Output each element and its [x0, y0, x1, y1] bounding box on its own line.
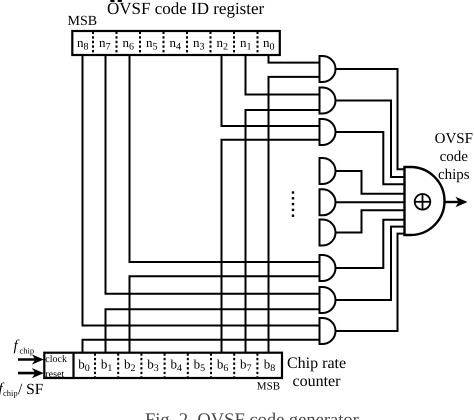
svg-text:n2: n2 — [217, 35, 229, 53]
svg-text:b1: b1 — [101, 357, 113, 375]
wire n6 to U7 input A — [130, 54, 320, 262]
svg-text:n1: n1 — [240, 35, 252, 53]
svg-text:n5: n5 — [146, 35, 158, 53]
svg-text:MSB: MSB — [257, 381, 280, 393]
AND gate U5 (unconnected inputs) — [320, 189, 336, 215]
register cell labels n8..n0 — [77, 35, 275, 53]
wire b1 up to U8 input B — [106, 309, 320, 353]
counter cell divider 7 (dotted) — [233, 353, 235, 377]
register cell divider 5 (dotted) — [186, 32, 188, 55]
wire U8 out — [336, 227, 405, 300]
clock/reset divider — [72, 353, 74, 378]
output wire with arrow — [445, 201, 460, 203]
counter cell divider 2 (dotted) — [117, 353, 119, 377]
svg-text:n7: n7 — [99, 35, 111, 53]
register cell divider 3 (dotted) — [139, 32, 141, 55]
output arrowhead — [456, 197, 468, 207]
svg-text:b5: b5 — [194, 357, 206, 375]
input arrow f_chip (clock) — [18, 358, 36, 361]
svg-text:reset: reset — [45, 369, 64, 380]
wire b6 up to U3 input B — [222, 140, 320, 354]
counter cell divider 6 (dotted) — [210, 353, 212, 377]
counter cell dividers (dotted) — [95, 353, 257, 377]
register cell divider 2 (dotted) — [116, 32, 118, 55]
AND gate U1 — [320, 56, 336, 82]
wire n7 to U8 input A — [106, 54, 320, 294]
wire U6 out — [336, 210, 405, 232]
wires: register outputs down to AND gate inputs — [83, 54, 320, 354]
wire b0 up to U9 input B — [83, 340, 320, 354]
svg-text:n6: n6 — [123, 35, 135, 53]
wire U7 out — [336, 220, 405, 268]
AND gate U3 — [320, 119, 336, 145]
wires: gate outputs to XOR inputs — [336, 69, 405, 331]
counter cell divider 5 (dotted) — [187, 353, 189, 377]
svg-text:n8: n8 — [77, 35, 89, 53]
register cell divider 6 (dotted) — [210, 32, 212, 55]
wire n1 to U2 input A — [246, 54, 320, 95]
svg-text:code: code — [440, 149, 469, 165]
svg-text:/ SF: / SF — [18, 381, 44, 398]
counter cell divider 3 (dotted) — [140, 353, 142, 377]
svg-text:Chip rate: Chip rate — [287, 355, 346, 372]
wire U9 out — [336, 234, 405, 331]
register cell divider 4 (dotted) — [163, 32, 165, 55]
svg-text:counter: counter — [293, 373, 342, 390]
input arrow f_chip/SF (reset) — [18, 372, 36, 375]
wire n8 to U9 input A — [83, 54, 320, 326]
svg-text:Fig. 2. OVSF code generator: Fig. 2. OVSF code generator — [145, 411, 359, 420]
svg-text:MSB: MSB — [68, 14, 98, 29]
AND gate U4 (unconnected inputs) — [320, 158, 336, 184]
wire U4 out — [336, 171, 405, 194]
svg-text:b8: b8 — [264, 357, 276, 375]
svg-text:chip: chip — [3, 388, 18, 398]
svg-text:n0: n0 — [263, 35, 275, 53]
AND gate U2 — [320, 88, 336, 114]
AND gate U7 — [320, 255, 336, 281]
register cell divider 7 (dotted) — [233, 32, 235, 55]
svg-text:OVSF code ID register: OVSF code ID register — [107, 0, 265, 18]
svg-text:chip: chip — [20, 346, 35, 356]
wire U1 out — [336, 69, 405, 169]
Chip rate counter box — [44, 353, 282, 378]
wire n2 to U3 input A — [222, 54, 320, 126]
counter cell divider 8 (dotted) — [256, 353, 258, 377]
wire U2 out — [336, 101, 405, 178]
svg-text:b3: b3 — [147, 357, 159, 375]
svg-text:clock: clock — [45, 354, 67, 365]
xor symbol circle-plus — [415, 194, 431, 210]
umlaut crop dots above title O — [110, 0, 114, 2]
svg-text:b6: b6 — [217, 357, 229, 375]
svg-text:b0: b0 — [78, 357, 90, 375]
AND gate U6 (unconnected inputs) — [320, 220, 336, 246]
wire n0 to U1 input A — [269, 54, 320, 63]
wire U3 out — [336, 132, 405, 184]
svg-text:chips: chips — [438, 167, 470, 183]
svg-text:OVSF: OVSF — [435, 131, 473, 147]
svg-text:n4: n4 — [170, 35, 182, 53]
svg-text:b7: b7 — [240, 357, 252, 375]
counter cell labels b0..b8 — [78, 357, 275, 375]
register cell divider 8 (dotted) — [257, 32, 259, 55]
wire b7 up to U2 input B — [246, 110, 320, 354]
wire b8 up to U1 input B — [269, 77, 320, 354]
AND gate U8 — [320, 287, 336, 313]
counter cell divider 4 (dotted) — [164, 353, 166, 377]
svg-text:b4: b4 — [170, 357, 182, 375]
counter cell divider 1 (dotted) — [94, 353, 96, 377]
register cell divider 1 (dotted) — [92, 32, 94, 55]
ellipsis dots (omitted connections) — [292, 191, 294, 217]
OVSF code ID register box — [72, 31, 279, 55]
XOR gate (modulo-2 adder) — [405, 167, 445, 235]
wire b2 up to U7 input B — [130, 276, 320, 353]
AND gate U9 — [320, 318, 336, 344]
svg-text:n3: n3 — [193, 35, 205, 53]
wire U5 out — [336, 201, 405, 203]
svg-text:b2: b2 — [124, 357, 136, 375]
register cell dividers (dotted) — [93, 32, 258, 55]
